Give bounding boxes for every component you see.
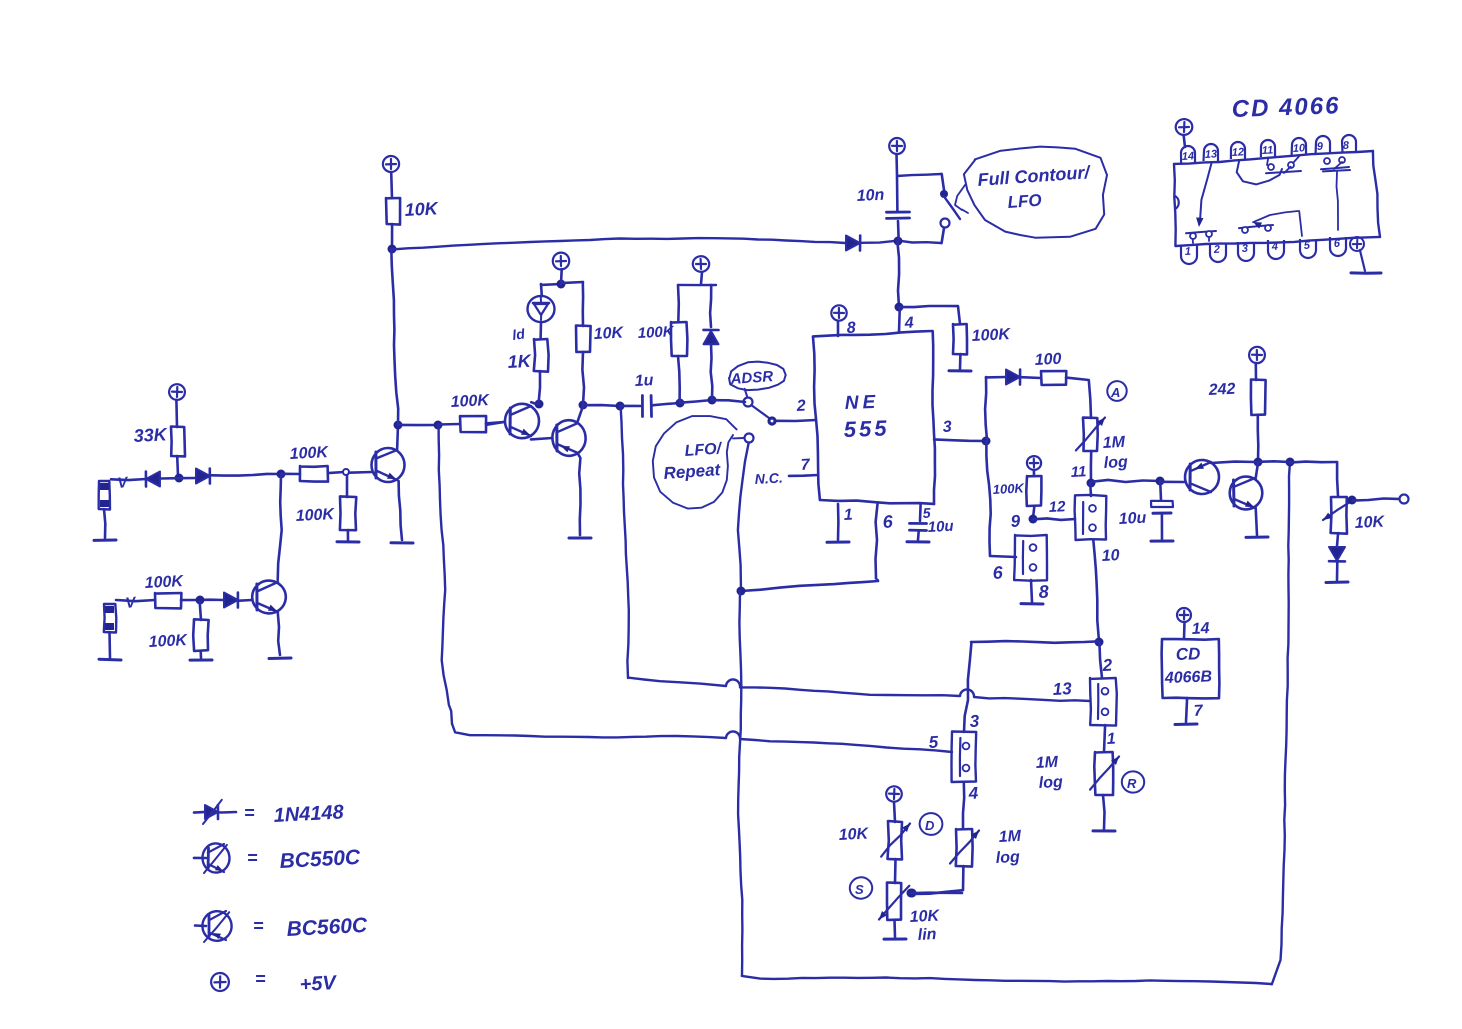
svg-text:3: 3 — [969, 711, 980, 730]
svg-text:1M: 1M — [998, 828, 1022, 846]
svg-text:10K: 10K — [404, 198, 440, 220]
svg-text:10K: 10K — [1354, 513, 1386, 532]
svg-text:11: 11 — [1070, 463, 1086, 481]
svg-text:2: 2 — [1101, 655, 1113, 675]
svg-text:8: 8 — [846, 320, 856, 337]
svg-text:10K: 10K — [593, 324, 625, 343]
svg-text:33K: 33K — [133, 424, 169, 446]
svg-text:2: 2 — [1213, 244, 1221, 256]
svg-text:CD: CD — [1175, 644, 1200, 664]
svg-text:4066B: 4066B — [1164, 668, 1213, 687]
svg-text:4: 4 — [1271, 241, 1279, 253]
svg-text:100K: 100K — [971, 326, 1012, 345]
svg-text:1M: 1M — [1035, 754, 1059, 772]
svg-text:1: 1 — [1106, 731, 1116, 748]
svg-text:ADSR: ADSR — [729, 368, 774, 388]
svg-text:1: 1 — [1185, 246, 1192, 258]
svg-text:10K: 10K — [838, 825, 870, 844]
svg-text:10n: 10n — [856, 187, 885, 205]
svg-text:14: 14 — [1191, 620, 1210, 638]
svg-text:100K: 100K — [295, 506, 336, 525]
svg-text:11: 11 — [1262, 144, 1274, 157]
svg-text:4: 4 — [903, 315, 914, 333]
svg-text:10K: 10K — [909, 907, 941, 926]
svg-text:8: 8 — [1038, 581, 1049, 601]
svg-text:12: 12 — [1048, 498, 1066, 516]
svg-text:4: 4 — [967, 783, 979, 803]
svg-text:100K: 100K — [637, 323, 675, 342]
svg-text:3: 3 — [1242, 243, 1249, 255]
svg-text:3: 3 — [942, 419, 952, 436]
svg-text:5: 5 — [928, 732, 939, 751]
svg-text:log: log — [1038, 774, 1063, 792]
svg-text:CD 4066: CD 4066 — [1231, 92, 1341, 123]
svg-text:14: 14 — [1182, 150, 1195, 163]
svg-text:log: log — [1103, 454, 1128, 472]
svg-text:LFO: LFO — [1007, 191, 1042, 212]
svg-text:242: 242 — [1207, 381, 1236, 399]
svg-text:100K: 100K — [992, 480, 1025, 497]
svg-text:=: = — [247, 848, 258, 868]
svg-text:log: log — [995, 849, 1020, 867]
svg-text:10: 10 — [1101, 547, 1120, 565]
svg-text:100K: 100K — [144, 573, 185, 592]
svg-text:BC550C: BC550C — [279, 846, 361, 873]
svg-text:1: 1 — [843, 507, 853, 524]
svg-text:=: = — [255, 969, 266, 989]
svg-text:13: 13 — [1205, 148, 1218, 161]
svg-text:N.C.: N.C. — [754, 470, 783, 487]
svg-text:1M: 1M — [1102, 434, 1126, 452]
svg-text:A: A — [1110, 385, 1120, 400]
svg-text:1K: 1K — [507, 351, 533, 372]
svg-text:100K: 100K — [148, 632, 189, 651]
svg-text:D: D — [925, 818, 935, 833]
svg-text:LFO/: LFO/ — [684, 440, 723, 460]
svg-text:BC560C: BC560C — [286, 914, 368, 941]
svg-text:S: S — [855, 882, 864, 897]
svg-text:+5V: +5V — [299, 972, 338, 996]
svg-text:=: = — [253, 916, 264, 936]
svg-text:555: 555 — [843, 415, 890, 442]
svg-text:1N4148: 1N4148 — [273, 801, 345, 827]
svg-text:R: R — [1127, 776, 1137, 791]
svg-text:100: 100 — [1034, 351, 1062, 369]
svg-text:100K: 100K — [289, 444, 330, 463]
svg-text:10u: 10u — [927, 518, 954, 536]
svg-text:10: 10 — [1293, 142, 1307, 155]
svg-text:=: = — [244, 803, 255, 823]
svg-text:9: 9 — [1010, 511, 1021, 530]
svg-text:2: 2 — [795, 398, 806, 416]
svg-text:100K: 100K — [450, 392, 491, 411]
svg-text:12: 12 — [1232, 146, 1245, 159]
svg-text:1u: 1u — [634, 372, 654, 390]
svg-text:NE: NE — [844, 392, 879, 414]
svg-text:10u: 10u — [1118, 510, 1147, 528]
svg-text:lin: lin — [917, 926, 937, 944]
svg-text:Repeat: Repeat — [663, 460, 722, 483]
svg-text:13: 13 — [1052, 679, 1072, 699]
